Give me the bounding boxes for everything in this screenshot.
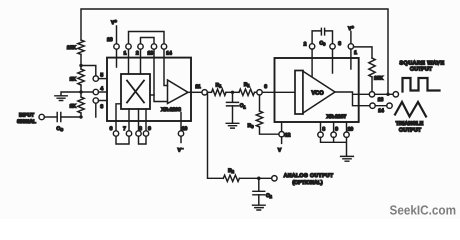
pin 16 (114, 44, 119, 49)
svg-text:9: 9 (148, 126, 151, 132)
node B junction (79, 90, 82, 93)
wire buffer out to pin11 (188, 91, 202, 93)
wire top V+ rail (81, 9, 388, 94)
svg-text:1: 1 (354, 50, 357, 56)
wire pin2 into X cell (140, 49, 142, 74)
capacitor C1 (227, 102, 239, 106)
svg-text:13: 13 (378, 97, 384, 103)
pin 6 (XR-2207 in) (257, 90, 262, 95)
svg-text:1K: 1K (70, 77, 77, 83)
svg-text:XR-2207: XR-2207 (327, 114, 347, 120)
wire pin1 stub (350, 58, 352, 69)
svg-text:V+: V+ (111, 18, 117, 26)
wire pin5 to IC (99, 78, 108, 80)
pin 1 (126, 44, 131, 49)
icon triangle wave (395, 102, 426, 117)
wire pin1 into X cell (128, 49, 130, 74)
pin 14 (161, 44, 166, 49)
wire pin13 to buffer input (154, 49, 168, 101)
wire R2 feed drop (208, 92, 224, 178)
svg-text:2: 2 (136, 51, 139, 57)
capacitor C0 (321, 28, 324, 35)
wire pin3 riser (95, 103, 97, 117)
resistor 1K (upper) (78, 69, 84, 85)
wire pin9 stub (U2) (333, 122, 335, 132)
pin 6 (115, 121, 117, 131)
svg-text:10K: 10K (374, 76, 384, 82)
svg-text:1K: 1K (70, 104, 77, 110)
svg-text:V−: V− (178, 146, 184, 154)
node input terminal (39, 114, 44, 119)
wire 10K to pin13 node (371, 77, 373, 92)
svg-text:8: 8 (322, 127, 325, 133)
wire loop pins 2-13 (141, 38, 155, 44)
resistor R2 (223, 175, 239, 181)
wire loop C0 (312, 31, 332, 44)
wire V+ to pin16 (116, 26, 118, 44)
VCO triangle (303, 71, 335, 113)
pin 14 (U2) (370, 103, 375, 108)
svg-text:12: 12 (285, 132, 291, 138)
wire input to Cc (44, 116, 55, 118)
wire pin2 stub (311, 58, 313, 76)
wire pin14 to buffer input (164, 49, 168, 85)
wire pin3 to IC (99, 100, 108, 102)
pin 9 (U2) (331, 132, 336, 137)
svg-text:C0: C0 (320, 40, 327, 46)
svg-text:TRIANGLE: TRIANGLE (396, 121, 424, 127)
svg-text:9: 9 (335, 127, 338, 133)
node A junction (79, 64, 82, 67)
ground (C2) (253, 205, 266, 210)
op-amp U2 XR-2207 box (275, 58, 359, 122)
svg-text:SIGNAL: SIGNAL (17, 119, 36, 125)
svg-text:XR-2208: XR-2208 (161, 107, 181, 113)
svg-text:V: V (278, 148, 282, 154)
svg-text:SeekIC.com: SeekIC.com (390, 203, 457, 218)
wire pin7 inside (128, 109, 130, 121)
wire pin5 tap (81, 66, 96, 76)
svg-text:7: 7 (123, 126, 126, 132)
wire R0 to pin12 (260, 127, 279, 134)
wire pin13 line (359, 93, 393, 95)
svg-text:3: 3 (100, 104, 103, 110)
svg-text:R0: R0 (248, 123, 255, 129)
resistor 10K (left chain top) (78, 40, 84, 54)
wire pin9 inside (145, 109, 147, 121)
multiplier X cell (121, 74, 150, 109)
wire pin10 to V- (180, 136, 182, 142)
svg-text:13: 13 (148, 51, 154, 57)
wire pin8 stub (U2) (320, 122, 322, 132)
capacitor Cc (57, 113, 61, 122)
svg-text:C1: C1 (240, 103, 247, 109)
wire loop pins 1-14 (129, 32, 165, 44)
pin 3 (93, 98, 98, 103)
pin 13 (151, 44, 156, 49)
svg-text:R1: R1 (216, 82, 223, 88)
pin 10 (U2) (344, 132, 349, 137)
pin 3 (U2) (330, 44, 335, 49)
wire pin8 inside (138, 109, 140, 121)
resistor 10K (pullup) (369, 58, 375, 77)
svg-text:1: 1 (124, 51, 127, 57)
node square output terminal (393, 92, 398, 97)
pin 4 (93, 89, 98, 94)
wire pin4 to IC (99, 91, 108, 93)
svg-text:3: 3 (338, 41, 341, 47)
wire Cc to chain (61, 116, 81, 118)
wire C1 to ground (232, 106, 234, 123)
wire R1 to R1 (226, 91, 239, 93)
resistor R0 (256, 111, 262, 127)
pin 2 (138, 44, 143, 49)
wire X cell out (150, 94, 154, 96)
pin 12 (U2) (281, 122, 283, 132)
pin 8 (138, 121, 140, 131)
resistor 1K (lower) (78, 97, 84, 113)
wire chain segment (80, 85, 82, 97)
node rail junction (386, 93, 389, 96)
wire pin12 to V (281, 137, 283, 144)
svg-text:2: 2 (304, 41, 307, 47)
wire chain segment (80, 54, 82, 69)
pin 2 (U2) (309, 44, 314, 49)
svg-text:4: 4 (100, 86, 103, 92)
wire R1 to pin6 (255, 91, 257, 93)
capacitor C2 (253, 191, 265, 195)
svg-text:14: 14 (166, 51, 172, 57)
wire R0 drop (259, 95, 261, 111)
svg-text:INPUT: INPUT (19, 112, 34, 118)
op-amp U1 XR-2208 box (107, 58, 191, 121)
svg-text:ANALOG OUTPUT: ANALOG OUTPUT (284, 173, 334, 179)
node triangle output terminal (387, 103, 392, 108)
ground (U2) (341, 156, 354, 161)
wire pin11 to R1 (207, 91, 211, 93)
wire R2 to output (239, 177, 271, 179)
wire C2 drop (258, 178, 260, 191)
wire strap pins 6-7 (116, 136, 129, 144)
svg-text:10K: 10K (67, 45, 77, 51)
svg-text:OUTPUT: OUTPUT (399, 127, 422, 133)
resistor R1 (212, 89, 227, 95)
icon square wave (403, 78, 440, 92)
op-amp buffer triangle (168, 80, 189, 104)
VCO input bar (295, 71, 303, 115)
node analog output terminal (272, 176, 277, 181)
svg-text:11: 11 (195, 84, 201, 90)
wire V+ to pin1 (350, 32, 352, 44)
node C junction (79, 115, 82, 118)
wire pin16 into IC (116, 49, 118, 67)
resistor R1 second (239, 89, 255, 95)
wire chain segment (80, 113, 82, 117)
node C1 tap (231, 91, 234, 94)
svg-text:10: 10 (348, 127, 354, 133)
wire pin6 into VCO (262, 91, 295, 93)
svg-text:16: 16 (107, 37, 113, 43)
pin 8 (U2) (318, 132, 323, 137)
wire VCO out (335, 92, 359, 106)
wire pin10 inside (180, 113, 182, 122)
ground (input divider) (55, 96, 67, 101)
svg-text:(OPTIONAL): (OPTIONAL) (292, 180, 323, 186)
svg-text:CC: CC (57, 126, 64, 132)
svg-text:R2: R2 (228, 168, 235, 174)
wire C2 to ground (258, 195, 260, 205)
svg-text:VCO: VCO (311, 91, 324, 97)
wire strap pins 8-9 (139, 136, 147, 144)
wire pin14 line (359, 105, 387, 107)
svg-text:10: 10 (182, 126, 188, 132)
svg-text:C2: C2 (266, 193, 273, 199)
svg-text:5: 5 (100, 73, 103, 79)
wire pin6 inside (116, 104, 121, 121)
svg-text:8: 8 (139, 126, 142, 132)
wire C1 riser (232, 92, 234, 102)
pin 1 (U2) (348, 44, 353, 49)
node C2 tap (257, 177, 261, 181)
svg-text:R1: R1 (244, 82, 251, 88)
pin 10 (180, 121, 182, 131)
wire pin3 stub (332, 58, 334, 73)
pin 5 (93, 76, 98, 81)
svg-text:6: 6 (264, 84, 267, 90)
svg-text:14: 14 (378, 108, 384, 114)
wire pin4 tap (81, 91, 93, 93)
svg-text:OUTPUT: OUTPUT (410, 66, 433, 72)
wire ground branch (61, 92, 81, 95)
ground (C1) (226, 123, 239, 128)
pin 11 (202, 90, 207, 95)
pin 13 (U2) (369, 92, 374, 97)
pin 9 (145, 121, 147, 131)
wire pin10 stub (U2) (346, 122, 348, 132)
wire pin1 to 10K pullup (354, 47, 372, 58)
pin 7 (128, 121, 130, 131)
wire ground bus pins 8-10 (321, 137, 347, 156)
svg-text:6: 6 (110, 126, 113, 132)
